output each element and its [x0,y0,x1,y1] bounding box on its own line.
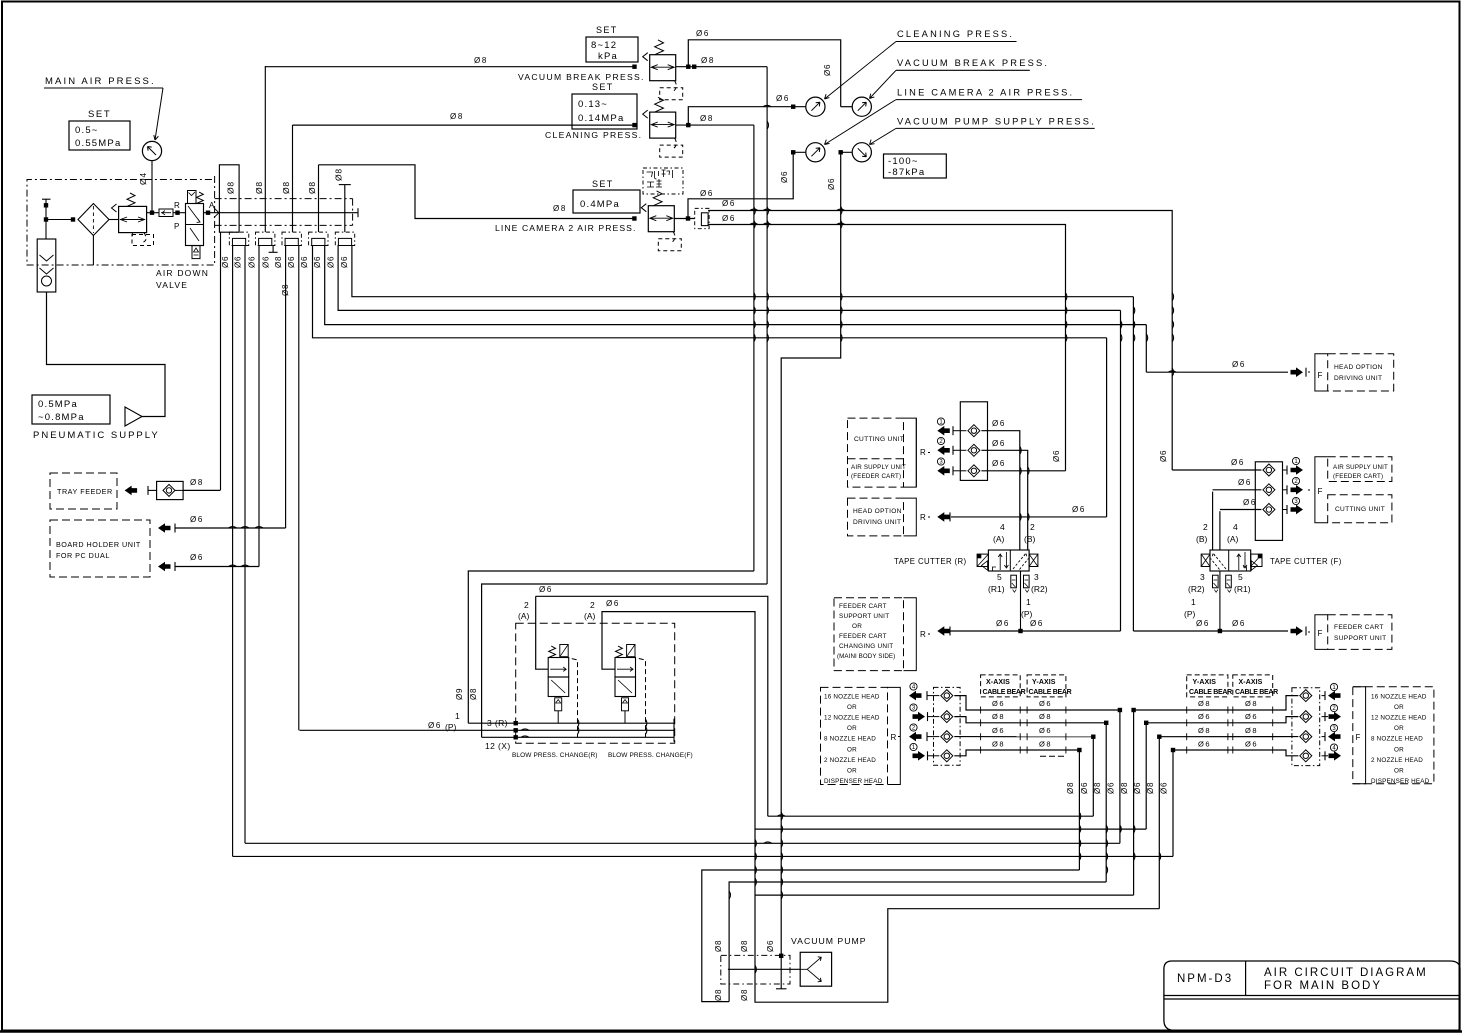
wire trunk t7 [755,894,1134,896]
riser line 3 [292,125,294,232]
svg-text:Ø6: Ø6 [1198,712,1211,721]
pressure gauge vacuum break [852,97,871,116]
svg-text:(FEEDER CART): (FEEDER CART) [1333,473,1383,480]
svg-text:OR: OR [1394,746,1404,753]
svg-text:(FEEDER CART): (FEEDER CART) [851,473,901,480]
unit box FEEDER CART R [834,598,904,671]
svg-text:Ø6: Ø6 [1245,740,1258,749]
wire nozzle R row1 [954,696,1120,710]
wire manifold out 3b [298,246,300,731]
leader to gauge2 [870,70,897,98]
manifold connector 5 [335,232,354,245]
wire trunk t4 [233,855,1173,857]
regulator main R1 [119,206,147,232]
svg-text:Ø8: Ø8 [1198,699,1211,708]
svg-text:Ø6: Ø6 [248,256,257,268]
svg-text:Ø8: Ø8 [190,478,204,487]
check valve nozzle F1 [1300,690,1312,702]
wire trunk t6 [729,882,1106,1002]
set value box 0.5~0.55MPa [69,121,130,150]
svg-text:Ø8: Ø8 [992,712,1005,721]
svg-text:Ø8: Ø8 [307,181,317,194]
bracket F nozzle [1353,687,1366,784]
regulator line camera [648,206,674,232]
silencer R1 [1011,575,1017,588]
svg-text:DRIVING UNIT: DRIVING UNIT [853,519,901,526]
unit box HEAD OPTION DRIVING UNIT F [1328,354,1394,391]
unit box CUTTING UNIT F [1328,495,1392,523]
svg-text:Ø6: Ø6 [992,699,1005,708]
silencer F R2 [1213,575,1219,588]
wire nozzle R row3 [954,736,1093,738]
unit box FEEDER CART SUPPORT UNIT F [1328,615,1392,650]
svg-text:Ø8: Ø8 [1146,782,1155,794]
svg-text:Ø6: Ø6 [190,553,204,562]
arrow to tray feeder [125,486,138,496]
svg-text:BOARD HOLDER UNIT: BOARD HOLDER UNIT [56,540,141,549]
wire vacuum supply down [781,152,841,956]
air supply unit enclosure [27,176,215,265]
svg-text:(R1): (R1) [988,584,1005,594]
wire manifold out 1a [232,246,234,857]
wire tray feeder [183,489,220,491]
svg-text:Ø8: Ø8 [469,688,478,700]
svg-text:R: R [920,630,926,639]
unit box AIR SUPPLY UNIT F [1328,457,1392,482]
svg-text:CLEANING PRESS.: CLEANING PRESS. [545,130,642,140]
svg-text:Ø6: Ø6 [262,256,271,268]
svg-text:1: 1 [1026,597,1031,607]
air down valve V1 [186,204,204,246]
regulator pilot line [673,81,677,92]
svg-text:Ø6: Ø6 [1039,699,1052,708]
svg-text:Ø6: Ø6 [1107,782,1116,794]
wire cleaning gauge branch [688,107,805,125]
svg-text:Ø6: Ø6 [1133,782,1142,794]
svg-text:Ø6: Ø6 [190,515,204,524]
svg-text:8 NOZZLE HEAD: 8 NOZZLE HEAD [824,736,876,743]
riser tube 1 [219,165,239,232]
svg-text:CHANGING UNIT: CHANGING UNIT [839,643,893,650]
svg-text:VACUUM PUMP: VACUUM PUMP [791,936,867,946]
check valve nozzle R4 [941,750,953,762]
svg-text:CUTTING UNIT: CUTTING UNIT [1335,506,1385,513]
bracket R head option [904,498,917,536]
wire tape cutter R P [1020,571,1022,631]
wire vacuum break out [676,66,767,68]
svg-text:(MAINI BODY SIDE): (MAINI BODY SIDE) [837,653,895,660]
wire to air down valve [173,212,186,214]
arrow nozzle R1 [910,683,917,690]
arrow cutting 1 [937,418,944,425]
arrow nozzle F4 [1330,744,1337,751]
svg-text:Ø6: Ø6 [696,29,710,38]
arrow board holder 1 [158,523,171,533]
bracket R cutting [904,418,917,487]
wire supply inlet vertical [45,199,47,239]
svg-text:AIR DOWN: AIR DOWN [156,268,209,278]
blow press valve F [615,658,636,678]
svg-text:F: F [1318,487,1323,496]
svg-text:CABLE BEAR: CABLE BEAR [983,689,1026,696]
wire nozzle F row3 [1159,736,1298,738]
svg-text:1: 1 [1191,597,1196,607]
arrow cutting 2 [937,437,944,444]
wire manifold out 5a [338,246,1120,311]
svg-text:Ø6: Ø6 [1080,782,1089,794]
svg-text:(B): (B) [1196,534,1208,544]
svg-text:Ø8: Ø8 [740,989,749,1001]
bracket F cutting [1315,457,1328,523]
manifold connector 4 [309,232,328,245]
svg-text:OR: OR [847,704,857,711]
svg-text:Ø8: Ø8 [1066,782,1075,794]
pressure gauge main air [142,141,161,160]
vacuum pump unit [800,952,831,986]
wire blow valve R drops [557,711,559,723]
svg-text:F: F [1318,371,1323,380]
wire tape cutter F P [1219,571,1221,631]
arrow cutting 3 [937,458,944,465]
svg-text:AIR CIRCUIT DIAGRAM: AIR CIRCUIT DIAGRAM [1264,967,1428,979]
bracket R feeder [904,598,917,671]
svg-text:Ø6: Ø6 [996,619,1010,628]
svg-text:Ø8: Ø8 [553,204,567,213]
blow press valve R [548,658,569,678]
wire drop R row2 [1105,723,1107,882]
arrow nozzle F1 [1330,683,1337,690]
leader arrow to main gauge [154,88,163,140]
check valve nozzle R3 [941,731,953,743]
supply pressure box [32,395,110,424]
wire riser2 to vacuum break regulator [265,66,634,68]
air down valve exhaust [192,246,200,259]
svg-text:16 NOZZLE HEAD: 16 NOZZLE HEAD [824,694,880,701]
svg-text:CLEANING PRESS.: CLEANING PRESS. [897,29,1014,39]
wire nozzle R row2 [954,717,1106,723]
line camera gauge branch [688,152,793,218]
arrow nozzle F2 [1330,704,1337,711]
unit box HEAD OPTION DRIVING UNIT R [848,498,904,536]
wire nozzle F row2 [1146,717,1298,723]
svg-text:HEAD OPTION: HEAD OPTION [1334,364,1383,371]
svg-text:Ø6: Ø6 [1039,726,1052,735]
title block divider horizontal [1164,995,1460,997]
svg-text:Ø6: Ø6 [722,199,736,208]
svg-text:Ø6: Ø6 [992,419,1006,428]
svg-text:SET: SET [596,25,618,35]
svg-text:0.5MPa: 0.5MPa [38,399,78,410]
svg-text:3 (R): 3 (R) [487,718,508,728]
svg-text:5: 5 [997,572,1002,582]
wire check R3 supply [981,470,1065,472]
svg-text:2: 2 [1030,522,1035,532]
svg-text:TAPE CUTTER (F): TAPE CUTTER (F) [1270,557,1342,566]
wire board holder 2 [175,566,259,568]
arrow nozzle R2 [910,704,917,711]
check valve nozzle F3 [1300,731,1312,743]
svg-text:Ø6: Ø6 [1030,619,1044,628]
svg-text:OR: OR [1394,767,1404,774]
svg-text:Ø6: Ø6 [992,726,1005,735]
wire head option F line [1146,371,1288,373]
arrow head option F [1291,367,1304,377]
pressure gauge line camera [806,143,825,162]
svg-text:Ø8: Ø8 [1245,726,1258,735]
wire cleaning down [753,125,755,571]
wire riser3 to cleaning regulator [293,124,635,126]
wire blow A F [602,611,615,669]
svg-text:8 NOZZLE HEAD: 8 NOZZLE HEAD [1371,736,1423,743]
svg-text:Ø6: Ø6 [287,256,296,268]
svg-text:(A): (A) [993,534,1005,544]
svg-text:Ø6: Ø6 [539,585,553,594]
vacuum pump filter box [721,955,790,984]
check valve F1 [1263,464,1275,476]
fitting check [159,209,173,217]
pressure gauge cleaning [806,97,825,116]
title block frame [1164,961,1460,1030]
wire manifold out 3a [285,246,287,529]
svg-text:SET: SET [592,82,614,92]
svg-text:Ø6: Ø6 [992,459,1006,468]
wire blow A R to trunk [536,596,768,816]
svg-text:(A): (A) [584,611,596,621]
wire drop F row2 [1145,723,1147,829]
svg-text:(A): (A) [518,611,530,621]
wire manifold out 2b plugged [272,246,274,253]
svg-text:Ø8: Ø8 [274,256,283,268]
wire bus4 down to head option R [1106,338,1108,517]
bracket F head option [1315,354,1328,391]
wire line camera out [675,218,695,220]
svg-text:(R2): (R2) [1188,584,1205,594]
pressure gauge vacuum pump supply [852,143,871,162]
wire bus2 down to feeder R [1120,310,1122,631]
filter F1 [78,204,109,236]
wire tray feeder riser [220,232,222,490]
svg-text:Ø6: Ø6 [428,721,442,730]
svg-text:TAPE CUTTER (R): TAPE CUTTER (R) [894,557,967,566]
arrow feeder F [1291,626,1304,636]
svg-text:kPa: kPa [598,51,618,62]
svg-text:CABLE BEAR: CABLE BEAR [1029,689,1072,696]
svg-text:OR: OR [1394,704,1404,711]
svg-text:4: 4 [1233,522,1238,532]
manifold connector 3 [282,232,301,245]
check valve nozzle R2 [941,711,953,723]
silencer R2 [1024,575,1030,588]
svg-text:Ø6: Ø6 [300,256,309,268]
svg-text:DISPENSER HEAD: DISPENSER HEAD [824,778,883,785]
check valve nozzle F2 [1300,711,1312,723]
wire gauge stem [151,161,153,212]
svg-text:(R1): (R1) [1234,584,1251,594]
tape cutter valve F [1210,550,1251,571]
check valve F2 [1263,484,1275,496]
svg-text:Ø6: Ø6 [1243,498,1257,507]
svg-text:VACUUM PUMP SUPPLY PRESS.: VACUUM PUMP SUPPLY PRESS. [897,116,1096,126]
vacuum range box [884,154,947,178]
wire line camera out A [708,211,1172,471]
svg-text:F: F [1318,629,1323,638]
check valve column [37,239,56,292]
svg-text:Ø8: Ø8 [226,181,236,194]
svg-text:Ø6: Ø6 [1232,360,1246,369]
svg-text:Ø8: Ø8 [450,112,464,121]
svg-text:~0.8MPa: ~0.8MPa [38,412,85,423]
unit box CUTTING UNIT R [848,418,904,487]
tray feeder check valve [157,481,184,499]
svg-text:Ø8: Ø8 [1039,712,1052,721]
leader to gauge3 [825,100,897,145]
wire manifold out 5b [352,246,1134,297]
tape cutter valve R [988,550,1029,571]
svg-text:2: 2 [524,600,529,610]
wire blow A F to trunk [602,612,1159,1003]
wire manifold out 4b [325,246,1147,325]
check cluster F box [1292,688,1320,766]
svg-text:Ø6: Ø6 [340,256,349,268]
svg-text:FEEDER CART: FEEDER CART [1334,624,1384,631]
set box 0.4MPa [573,190,640,213]
svg-text:3: 3 [1034,572,1039,582]
svg-text:Ø6: Ø6 [1196,619,1210,628]
svg-text:(P): (P) [445,722,457,732]
wire blow bus X line [482,736,674,738]
regulator spring [653,191,662,206]
wire regulator out [147,212,159,214]
svg-text:X-AXIS: X-AXIS [986,679,1010,686]
svg-text:Ø8: Ø8 [701,56,715,65]
regulator pilot dashed [131,233,133,236]
wire drop R row3 [1092,737,1094,817]
blow bus end ticks [673,719,675,728]
wire nozzle F row1 [1134,696,1299,710]
wire vacuum break down [766,67,768,584]
svg-text:SET: SET [88,109,111,120]
svg-text:-87kPa: -87kPa [888,167,925,178]
check valve F3 [1263,504,1275,516]
regulator cleaning [650,112,676,138]
cable bear Y axis R [1027,675,1066,697]
arrow board holder 2 [158,562,171,572]
wire head option R line [951,516,1107,518]
svg-text:Ø6: Ø6 [827,178,836,190]
wire blow valve F drops [624,711,626,723]
wire cleaning to blow P [468,571,754,723]
wire drop R row4 [1078,750,1080,870]
wire drop R row1 [1119,710,1121,843]
wire blow bus R line [468,722,674,724]
wire drop F row1 [1133,710,1135,895]
check valve nozzle R1 [941,690,953,702]
regulator pilot line [671,232,675,243]
wire F supply row1 [1172,469,1261,471]
svg-text:OR: OR [1394,725,1404,732]
wire board holder 1 [175,527,286,529]
wire drop F row3 [1158,737,1160,909]
riser line 4 [318,165,320,232]
wire pneumatic supply route [47,292,166,417]
svg-text:VACUUM BREAK PRESS.: VACUUM BREAK PRESS. [518,72,645,82]
unit box TRAY FEEDER [50,473,117,509]
wire manifold out 4a [313,246,1107,338]
svg-text:Ø6: Ø6 [1198,740,1211,749]
air down valve solenoid [188,191,197,204]
svg-text:Ø4: Ø4 [138,172,148,185]
svg-text:Ø8: Ø8 [700,114,714,123]
svg-text:2: 2 [1203,522,1208,532]
svg-text:Ø6: Ø6 [234,256,243,268]
check valve R2 [968,444,980,456]
wire manifold out 1b [244,246,246,844]
svg-text:R: R [891,733,897,742]
wire into gauge2 [841,106,853,108]
svg-text:12 (X): 12 (X) [485,741,511,751]
silencer F R1 [1226,575,1232,588]
wire feeder F line [1133,630,1288,632]
set box 8-12kPa [586,37,638,62]
fitting after line camera regulator [695,208,709,228]
svg-text:OR: OR [852,623,862,630]
svg-text:Ø6: Ø6 [1160,782,1169,794]
svg-text:DISPENSER HEAD: DISPENSER HEAD [1371,778,1430,785]
svg-text:MAIN AIR PRESS.: MAIN AIR PRESS. [45,76,156,87]
manifold connector 1 [229,232,248,245]
svg-text:1: 1 [455,711,460,721]
svg-text:TRAY FEEDER: TRAY FEEDER [57,487,113,496]
arrow nozzle R4 [910,743,917,750]
svg-text:Ø8: Ø8 [334,168,344,181]
bracket R nozzle [888,687,901,784]
check valve R1 [968,425,980,437]
wire F row2 to tape B [1212,492,1214,550]
svg-text:(P): (P) [1184,609,1196,619]
arrow nozzle R3 [910,724,917,731]
wire trunk t3 [245,842,1120,844]
svg-text:0.14MPa: 0.14MPa [578,113,624,124]
wire cleaning out [676,124,754,126]
set box 0.13-0.14MPa [572,94,637,129]
wire filter to regulator [109,219,119,221]
wire check R2 to tape B [981,450,1027,550]
tape cutter F spring box [1201,554,1210,566]
svg-text:8~12: 8~12 [591,40,617,51]
svg-text:Ø8: Ø8 [992,740,1005,749]
svg-text:OR: OR [847,746,857,753]
bracket F feeder [1315,615,1328,650]
svg-text:CABLE BEAR: CABLE BEAR [1235,689,1278,696]
svg-text:CABLE BEAR: CABLE BEAR [1189,689,1232,696]
row crossing ticks R [980,707,982,714]
cable bear X axis R [981,675,1021,697]
svg-text:Ø8: Ø8 [740,940,749,952]
wire line camera out B [708,225,1065,471]
svg-text:(P): (P) [1021,609,1033,619]
svg-text:Ø6: Ø6 [722,214,736,223]
svg-text:16 NOZZLE HEAD: 16 NOZZLE HEAD [1371,694,1427,701]
wire vacuum break to blow X [482,584,767,737]
leader to gauge1 [825,42,897,100]
svg-text:Ø8: Ø8 [1198,726,1211,735]
check valve R3 [968,465,980,477]
wire to filter [46,219,75,221]
title block divider vertical [1245,961,1247,996]
svg-text:FOR PC DUAL: FOR PC DUAL [56,551,110,560]
arrow feeder R [937,626,950,636]
check manifold R [960,402,987,481]
